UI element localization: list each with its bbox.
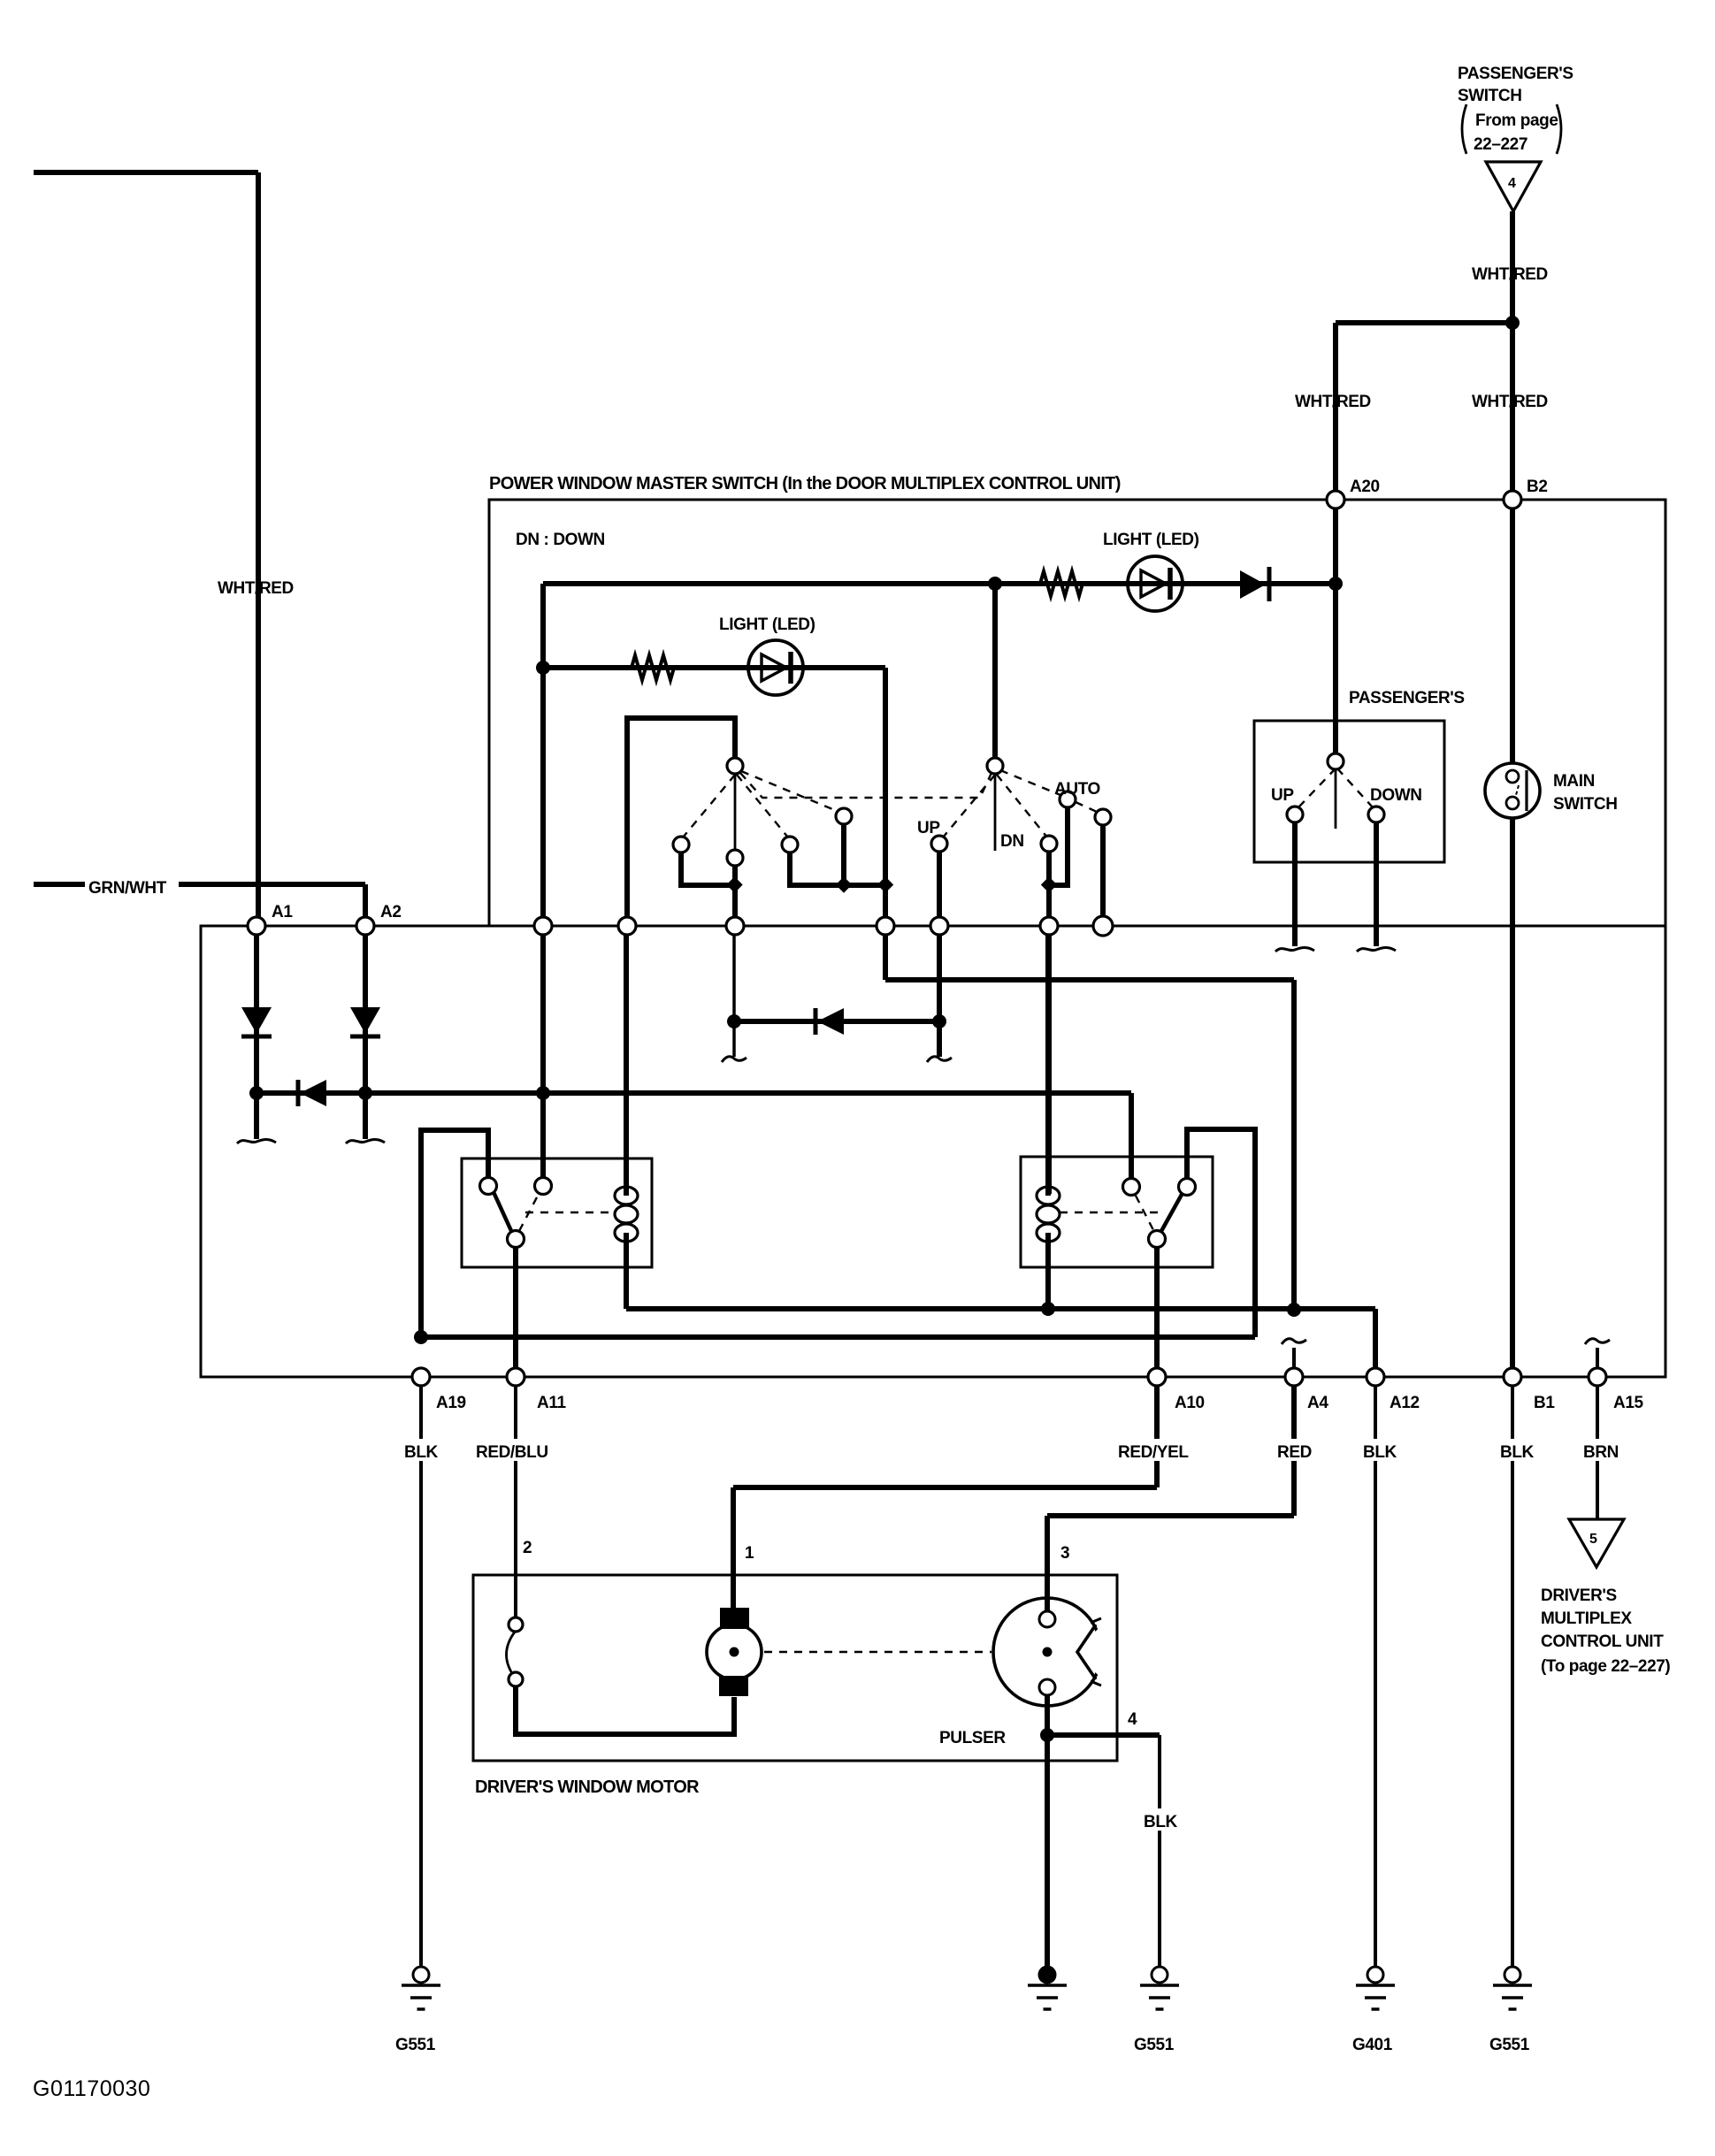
svg-text:G551: G551 <box>1134 2036 1175 2054</box>
svg-text:CONTROL UNIT: CONTROL UNIT <box>1541 1632 1664 1651</box>
svg-text:SWITCH: SWITCH <box>1458 87 1522 105</box>
svg-text:G401: G401 <box>1352 2036 1393 2054</box>
svg-text:B1: B1 <box>1534 1394 1555 1412</box>
svg-text:2: 2 <box>523 1539 532 1557</box>
svg-text:A20: A20 <box>1350 478 1380 496</box>
svg-text:PULSER: PULSER <box>939 1729 1006 1747</box>
svg-text:LIGHT (LED): LIGHT (LED) <box>719 615 815 634</box>
svg-text:POWER WINDOW MASTER SWITCH (In: POWER WINDOW MASTER SWITCH (In the DOOR … <box>489 474 1121 493</box>
svg-text:WHT/RED: WHT/RED <box>218 579 294 598</box>
svg-text:DRIVER'S: DRIVER'S <box>1541 1586 1617 1605</box>
svg-text:LIGHT (LED): LIGHT (LED) <box>1103 531 1199 549</box>
svg-text:DN: DN <box>1000 832 1024 851</box>
svg-text:A4: A4 <box>1307 1394 1328 1412</box>
svg-text:SWITCH: SWITCH <box>1553 795 1618 814</box>
svg-text:4: 4 <box>1128 1710 1137 1729</box>
svg-text:A10: A10 <box>1175 1394 1205 1412</box>
svg-text:PASSENGER'S: PASSENGER'S <box>1349 689 1465 707</box>
svg-text:WHT/RED: WHT/RED <box>1472 393 1548 411</box>
svg-text:AUTO: AUTO <box>1054 780 1100 799</box>
svg-text:5: 5 <box>1589 1532 1597 1547</box>
svg-text:DOWN: DOWN <box>1370 786 1422 805</box>
svg-text:A15: A15 <box>1613 1394 1643 1412</box>
svg-text:RED: RED <box>1277 1443 1312 1462</box>
svg-text:22–227: 22–227 <box>1474 135 1527 154</box>
svg-text:From page: From page <box>1475 111 1558 130</box>
svg-text:A11: A11 <box>537 1394 566 1412</box>
svg-text:A2: A2 <box>380 903 402 921</box>
svg-text:MULTIPLEX: MULTIPLEX <box>1541 1609 1632 1628</box>
svg-text:A19: A19 <box>436 1394 466 1412</box>
svg-text:1: 1 <box>745 1544 754 1563</box>
svg-text:WHT/RED: WHT/RED <box>1472 265 1548 284</box>
svg-text:WHT/RED: WHT/RED <box>1295 393 1371 411</box>
svg-text:BLK: BLK <box>1500 1443 1535 1462</box>
svg-text:DN : DOWN: DN : DOWN <box>516 531 605 549</box>
svg-text:BRN: BRN <box>1583 1443 1619 1462</box>
svg-text:G551: G551 <box>395 2036 436 2054</box>
svg-text:BLK: BLK <box>404 1443 439 1462</box>
svg-text:BLK: BLK <box>1144 1813 1178 1831</box>
svg-text:A1: A1 <box>272 903 293 921</box>
svg-text:G01170030: G01170030 <box>33 2076 150 2101</box>
svg-text:PASSENGER'S: PASSENGER'S <box>1458 65 1573 83</box>
svg-text:GRN/WHT: GRN/WHT <box>88 879 167 898</box>
svg-text:4: 4 <box>1508 176 1516 191</box>
svg-text:BLK: BLK <box>1363 1443 1397 1462</box>
svg-text:RED/BLU: RED/BLU <box>476 1443 548 1462</box>
svg-text:G551: G551 <box>1489 2036 1530 2054</box>
svg-text:UP: UP <box>917 819 940 837</box>
svg-text:UP: UP <box>1271 786 1294 805</box>
svg-text:A12: A12 <box>1390 1394 1420 1412</box>
svg-text:B2: B2 <box>1527 478 1548 496</box>
svg-text:3: 3 <box>1060 1544 1069 1563</box>
svg-text:MAIN: MAIN <box>1553 772 1595 791</box>
svg-text:DRIVER'S WINDOW MOTOR: DRIVER'S WINDOW MOTOR <box>475 1778 700 1797</box>
svg-text:(To page 22–227): (To page 22–227) <box>1541 1657 1670 1676</box>
svg-text:RED/YEL: RED/YEL <box>1118 1443 1189 1462</box>
